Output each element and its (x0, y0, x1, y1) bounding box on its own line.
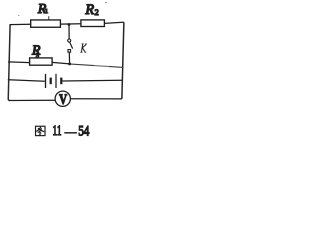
switch K: upper lead from top wire (68, 24, 70, 39)
label K (80, 44, 87, 52)
battery cell 1: positive plate (45, 74, 47, 88)
node: junction of R3 row and left vertical (8, 61, 10, 63)
svg-text:3: 3 (36, 54, 39, 60)
battery cell 2: negative plate (60, 78, 62, 85)
caption: figure number 11-54 (53, 123, 90, 140)
wire: voltmeter row right segment (70, 98, 121, 100)
svg-text:1: 1 (45, 8, 48, 15)
wire: battery row left segment (9, 80, 45, 82)
wire: top row left segment (10, 23, 31, 25)
wire: R3 row right segment to right vertical (71, 64, 124, 68)
svg-text:2: 2 (95, 8, 99, 17)
wire: R3 row left segment (9, 61, 30, 64)
wire: R3 row middle segment to junction (52, 62, 70, 64)
caption: hanzi TU (figure) drawn as paths (36, 126, 45, 135)
node: junction of battery row and left vertical (8, 79, 10, 81)
wire: voltmeter row left segment (10, 99, 56, 101)
wire: top row middle segment (60, 23, 81, 25)
label R1 (37, 1, 48, 16)
resistor R3 (30, 58, 52, 65)
wire: left vertical (top-left corner down to bottom-left corner) (8, 24, 10, 100)
svg-text:V: V (59, 92, 68, 108)
switch K: upper terminal (68, 39, 71, 42)
wire: battery row right segment (62, 79, 122, 82)
node: junction of switch branch and top wire (68, 23, 71, 26)
switch K: lower lead (68, 52, 70, 64)
wire: top row right segment into right vertical (104, 22, 124, 23)
switch K: blade (70, 42, 73, 48)
label R2 (84, 2, 98, 18)
switch K: lower terminal (68, 50, 71, 53)
svg-text:R: R (84, 2, 94, 18)
label R3 (31, 42, 41, 59)
wire: right vertical (down to bottom-right corner) (121, 23, 124, 99)
resistor R2 (81, 20, 105, 27)
battery cell 1: negative plate (50, 78, 52, 85)
svg-text:11: 11 (53, 123, 62, 139)
svg-text:54: 54 (78, 124, 90, 140)
voltmeter V: body (55, 91, 70, 106)
node: junction of switch branch and R3 row (68, 62, 71, 65)
resistor R1 (31, 20, 61, 27)
battery cell 2: positive plate (55, 74, 57, 88)
